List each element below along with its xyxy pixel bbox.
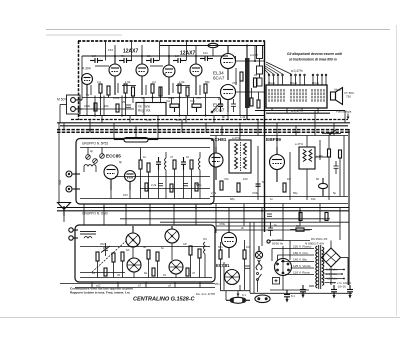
IF transformer T2 — [229, 140, 251, 173]
voltage selector PS1 — [275, 259, 292, 276]
wire fm box top rail — [80, 147, 210, 149]
svg-text:a 47%: a 47% — [295, 142, 303, 146]
connector left column box — [257, 46, 263, 87]
resistor R1 — [99, 84, 102, 93]
choke L.AF oval on box top — [114, 138, 158, 143]
line transformer box — [266, 85, 327, 108]
resistor R2 — [107, 86, 110, 95]
svg-text:6CA7: 6CA7 — [213, 76, 225, 81]
svg-text:9p: 9p — [119, 160, 123, 164]
G_TOPSECTION — [57, 41, 350, 232]
potentiometer P2 — [192, 104, 201, 112]
resistor R32 — [257, 100, 260, 108]
wire left dashed border — [78, 41, 80, 120]
resistor R27 — [198, 249, 201, 258]
wire antenna to rail — [63, 216, 65, 222]
svg-text:10k: 10k — [104, 104, 109, 108]
tube V5 — [190, 56, 202, 95]
wire fonovaligia arrow — [347, 114, 350, 120]
trimmer CT2 — [93, 159, 98, 164]
tube V3 — [136, 56, 148, 95]
svg-text:OC: OC — [203, 237, 207, 241]
tube V15 — [222, 222, 237, 258]
svg-text:1M: 1M — [287, 177, 292, 181]
resistor R31 — [250, 98, 253, 106]
wire dial cord — [92, 241, 126, 272]
capacitor C17 — [126, 105, 131, 107]
label lower row values — [84, 100, 246, 122]
terminal strip row — [268, 74, 327, 85]
wire left vertical — [58, 123, 60, 202]
svg-text:1M: 1M — [175, 54, 180, 58]
G_MIDBAND — [57, 111, 350, 286]
resistor R10 — [240, 72, 243, 81]
dipole jack lower — [66, 186, 80, 192]
ferrite antenna L4 — [80, 232, 96, 239]
resistor R36 — [145, 183, 148, 191]
tube V9 ECH81 — [209, 147, 223, 180]
resistor R7 — [178, 84, 181, 93]
svg-text:68p: 68p — [230, 197, 235, 201]
svg-text:Rapporto bobine in tesa. Fr: Rapporto bobine in tesa. Freq. interm. f… — [70, 291, 131, 295]
wire fm box mid rail — [115, 176, 210, 178]
wire band divider dashed A — [57, 129, 350, 131]
switch SW1 — [322, 130, 341, 135]
resistor R13 — [139, 160, 142, 169]
resistor plate oval — [208, 43, 218, 47]
resistor R33 — [339, 150, 342, 158]
scan page right edge — [396, 25, 398, 316]
svg-text:CENTRALINO G.1528-C: CENTRALINO G.1528-C — [133, 296, 196, 302]
svg-text:48: 48 — [143, 245, 147, 249]
capacitor C19 — [158, 184, 163, 186]
capacitor C18 — [245, 266, 250, 268]
wire if rail bottom — [210, 196, 348, 198]
tone control box — [136, 103, 166, 116]
wire band divider dashed B — [57, 131, 350, 133]
svg-text:10: 10 — [186, 155, 190, 159]
svg-text:Ton.: Ton. — [190, 99, 196, 103]
svg-text:Gli altoparlanti devono essere: Gli altoparlanti devono essere uniti — [287, 52, 342, 56]
resistor R43 — [325, 213, 328, 221]
tube V7 EL34 — [221, 85, 236, 113]
capacitor C9 — [256, 184, 261, 186]
fuse F1 — [226, 297, 250, 303]
svg-text:ECC81: ECC81 — [216, 263, 230, 268]
svg-text:160 V. Oro: 160 V. Oro — [293, 251, 308, 255]
svg-text:16+16: 16+16 — [338, 285, 346, 289]
svg-text:GRUPPO N. OM3: GRUPPO N. OM3 — [82, 212, 108, 216]
wire fm box bottom rail — [80, 198, 210, 200]
G_POWER — [216, 222, 353, 303]
svg-text:125 V. Verde: 125 V. Verde — [293, 264, 311, 268]
resistor R4 — [132, 87, 135, 96]
resistor R34 — [94, 103, 97, 111]
capacitor C20 — [183, 184, 188, 186]
svg-text:a 47%: a 47% — [232, 136, 240, 140]
trimmer CT1 — [86, 155, 91, 160]
label terminal names — [268, 81, 319, 85]
resistor R5 — [151, 84, 154, 93]
resistor R37 — [170, 184, 173, 192]
transformer T1 coils — [269, 89, 324, 102]
svg-text:0,1: 0,1 — [242, 293, 246, 297]
label am values — [92, 237, 207, 277]
svg-text:a 0,47: a 0,47 — [250, 53, 258, 57]
svg-text:a 0,47%: a 0,47% — [291, 69, 303, 73]
speaker LS1 — [331, 88, 343, 105]
tube V2 — [109, 56, 121, 95]
bridge rectifier BR1 — [322, 248, 341, 267]
wire fm internal drops — [88, 148, 200, 199]
pilot lamp LP1 — [255, 246, 262, 259]
tube V11 socket — [126, 226, 140, 247]
capacitor C2 — [119, 58, 132, 63]
wire output coupling top — [236, 46, 265, 93]
wire fm lower link — [140, 188, 210, 190]
capacitor C10 electrolytic — [284, 290, 290, 303]
wire am lower link — [80, 272, 125, 274]
wire secondary taps — [325, 270, 345, 283]
svg-text:470k: 470k — [219, 222, 226, 226]
resistor R23 — [121, 252, 124, 261]
wire power top rails — [216, 222, 340, 293]
svg-text:25: 25 — [122, 100, 126, 104]
svg-text:100k: 100k — [113, 96, 120, 100]
wire inter-band rails — [120, 219, 349, 222]
resistor R35 — [116, 104, 119, 112]
svg-text:AP: AP — [183, 242, 187, 246]
capacitor C1 — [90, 58, 103, 63]
capacitor C3 — [146, 58, 159, 63]
wire heater rail — [78, 115, 264, 117]
svg-text:RS 250/1,4/5: RS 250/1,4/5 — [311, 237, 328, 241]
diode D1 — [319, 178, 328, 196]
tube V13 socket — [127, 258, 141, 272]
resistor R14 — [147, 163, 150, 172]
svg-text:33: 33 — [117, 273, 121, 277]
svg-text:15: 15 — [163, 273, 167, 277]
svg-text:470: 470 — [196, 96, 201, 100]
input jack housing — [67, 95, 81, 114]
dipole jack upper — [66, 171, 80, 177]
svg-text:154: 154 — [108, 48, 113, 52]
capacitor C16 — [334, 161, 339, 174]
capacitor C4 — [173, 58, 186, 63]
capacitor C22 plus — [273, 278, 280, 285]
wire rail under midband 1 — [57, 207, 349, 209]
resistor R16 — [190, 160, 193, 169]
tube V6 EL34 — [221, 46, 236, 81]
svg-text:ECC85: ECC85 — [106, 154, 121, 159]
svg-text:56p: 56p — [293, 191, 298, 195]
label voltage taps — [293, 245, 312, 275]
svg-text:2n: 2n — [241, 226, 245, 230]
resistor R38 — [195, 183, 198, 191]
svg-text:8n: 8n — [222, 115, 226, 119]
resistor R20 — [283, 183, 286, 192]
input jack phono 2 — [71, 107, 82, 112]
coil L2 — [165, 152, 167, 176]
svg-text:2,2: 2,2 — [97, 80, 101, 84]
terminal ant2 — [69, 236, 78, 240]
tube V10 EBF89 — [270, 147, 285, 182]
wire crossband verticals — [64, 111, 345, 140]
switch SW2 mains — [257, 273, 262, 293]
coil L3 — [199, 152, 201, 176]
svg-text:OM: OM — [100, 242, 105, 246]
wire bottom dashed border — [71, 119, 348, 121]
wire below ambox drops — [60, 282, 215, 288]
svg-text:50: 50 — [316, 177, 320, 181]
resistor R29 — [243, 250, 246, 259]
AM tuner box — [75, 225, 215, 282]
wire right border — [348, 129, 350, 285]
svg-text:6A: 6A — [126, 248, 130, 252]
G_DETECTOR column — [215, 222, 251, 297]
resistor R40 — [152, 268, 155, 276]
tube V12 socket — [165, 226, 179, 243]
wire cathode rail — [82, 97, 220, 99]
svg-text:25n: 25n — [215, 282, 220, 286]
junction dots rails — [89, 125, 301, 212]
svg-text:110 V. Rosa: 110 V. Rosa — [293, 271, 310, 275]
resistor R39 — [104, 268, 107, 276]
wire if verticals — [216, 136, 329, 201]
svg-text:56k: 56k — [205, 80, 210, 84]
wire plate rail — [160, 45, 264, 47]
label under ambox — [96, 284, 171, 288]
coil L5 — [204, 242, 206, 254]
resistor R41 — [186, 268, 189, 276]
resistor R9 — [204, 84, 207, 93]
resistor R30 — [290, 228, 312, 231]
wire jack stub — [60, 105, 67, 123]
FM tuner box GRUPPO — [76, 139, 214, 205]
scan artifact bottom rule — [0, 317, 400, 319]
wire bus1 — [57, 122, 350, 124]
wire am internals — [80, 243, 212, 278]
svg-text:2,2k: 2,2k — [211, 191, 217, 195]
terminal ant1 — [69, 228, 78, 232]
svg-text:1n: 1n — [270, 197, 274, 201]
svg-text:470: 470 — [232, 81, 237, 85]
svg-text:8a: 8a — [144, 271, 148, 275]
svg-text:50n: 50n — [218, 245, 223, 249]
capacitor C8 — [181, 157, 186, 170]
resistor R19 — [237, 183, 240, 192]
svg-text:100: 100 — [243, 177, 248, 181]
scan artifact top rule — [46, 29, 390, 31]
tube V8 ECC85 — [104, 165, 118, 190]
wire right mesh — [315, 136, 344, 197]
label if values — [211, 142, 337, 201]
resistor R17 — [328, 149, 331, 157]
label value marks top row — [86, 48, 258, 103]
variable capacitor CV1 — [101, 243, 110, 256]
capacitor C6 — [218, 100, 223, 112]
wire misc top links — [91, 68, 259, 100]
potentiometer P1 — [170, 104, 179, 112]
label VT800 — [344, 91, 354, 99]
svg-text:1,5k: 1,5k — [125, 80, 131, 84]
resistor R25 — [156, 252, 159, 261]
switch lever top — [211, 98, 219, 113]
svg-text:A 304: A 304 — [82, 67, 91, 71]
resistor R24 — [147, 250, 150, 259]
svg-text:5n: 5n — [262, 180, 266, 184]
resistor R22 — [112, 253, 115, 262]
resistor R12 — [254, 78, 257, 87]
svg-text:8,1: 8,1 — [291, 294, 295, 298]
svg-text:al trasformatore di linea 800: al trasformatore di linea 800 m — [289, 58, 337, 62]
svg-text:5p: 5p — [333, 191, 337, 195]
trimmer CT3 — [100, 154, 105, 159]
tube V16 socket — [225, 270, 240, 285]
svg-text:N 800/2-T.4/A: N 800/2-T.4/A — [305, 242, 325, 246]
svg-text:2,2: 2,2 — [152, 80, 156, 84]
svg-text:47: 47 — [170, 155, 174, 159]
svg-text:Dis. num. 41785: Dis. num. 41785 — [196, 292, 215, 296]
svg-text:10n: 10n — [203, 51, 208, 55]
mains cord twisted — [256, 260, 262, 270]
wire aux rail — [82, 108, 134, 110]
mains plug P1 — [255, 295, 270, 303]
svg-text:22n: 22n — [147, 54, 152, 58]
G_TOPRIGHT speaker network — [255, 46, 354, 120]
resistor R18 — [220, 181, 223, 190]
wire under box 2 — [266, 112, 330, 114]
wire plate links — [95, 66, 190, 86]
label fm values — [90, 149, 202, 197]
coil L1 — [84, 165, 96, 173]
svg-text:Fonovaligia: Fonovaligia — [336, 110, 352, 114]
svg-text:47k: 47k — [120, 54, 125, 58]
wire grid row — [82, 55, 228, 57]
input jack phono 1 — [71, 98, 82, 103]
wire det verticals — [221, 222, 251, 293]
wire grid drops — [95, 81, 240, 115]
wire bus2 — [60, 125, 348, 127]
svg-text:47: 47 — [192, 271, 196, 275]
svg-text:L.N. 4/9441: L.N. 4/9441 — [337, 281, 352, 285]
IF transformer T3 — [299, 147, 315, 169]
svg-text:a 0,47%: a 0,47% — [291, 109, 303, 113]
transformer T4 primary — [316, 246, 318, 288]
svg-text:140 V. Blu: 140 V. Blu — [293, 258, 307, 262]
resistor R6 — [159, 87, 162, 96]
G_BOTTOM text — [70, 287, 215, 303]
resistor R28 — [219, 250, 222, 259]
wire under box 1 — [255, 110, 345, 112]
svg-text:10k: 10k — [311, 197, 316, 201]
svg-text:EBF89: EBF89 — [266, 137, 281, 143]
wire primary taps — [272, 249, 314, 287]
resistor R15 — [173, 160, 176, 169]
svg-text:Altop.: Altop. — [334, 88, 342, 92]
tube V14 socket — [169, 260, 183, 274]
svg-text:b7: b7 — [138, 284, 141, 288]
capacitor C14 — [268, 222, 273, 236]
wire extra mesh links — [82, 49, 236, 123]
svg-text:ECH81: ECH81 — [211, 137, 227, 143]
svg-text:100: 100 — [123, 193, 128, 197]
svg-text:750: 750 — [346, 95, 351, 99]
wire box drops — [272, 108, 318, 113]
svg-text:50: 50 — [86, 93, 90, 97]
wire top drops to border — [106, 41, 197, 61]
svg-text:5,6p: 5,6p — [196, 183, 202, 187]
capacitor C11 electrolytic — [300, 285, 306, 298]
svg-text:6,3V: 6,3V — [146, 118, 152, 122]
svg-text:1,5k: 1,5k — [179, 80, 185, 84]
svg-text:GRUPPO N. 5P52: GRUPPO N. 5P52 — [82, 142, 108, 146]
svg-text:Vol.: Vol. — [166, 99, 171, 103]
capacitor C7 — [156, 157, 161, 170]
tube V1 — [82, 74, 93, 96]
junction dots top — [94, 45, 256, 117]
wire if rail bottom2 — [210, 203, 348, 205]
svg-text:Reg. Vol.: Reg. Vol. — [138, 109, 151, 113]
svg-text:22: 22 — [163, 72, 167, 76]
transformer T4 secondary — [322, 247, 324, 286]
capacitor C5 — [200, 56, 213, 61]
wire power rails — [250, 241, 352, 294]
resistor R42 — [299, 213, 302, 221]
wire rail under midband 2 — [57, 210, 349, 212]
wire top dashed border — [78, 40, 265, 42]
wire fan to terminals — [265, 62, 291, 74]
G_AMBOX — [60, 219, 349, 288]
antenna ANT1 — [58, 203, 71, 217]
label power top values — [219, 222, 301, 230]
svg-text:12AX7: 12AX7 — [123, 49, 139, 55]
resistor R3 — [124, 84, 127, 93]
svg-text:50/60 Hz: 50/60 Hz — [272, 241, 284, 245]
label det values — [215, 245, 251, 297]
capacitor C13 electrolytic — [347, 285, 353, 299]
svg-text:1,2k: 1,2k — [240, 115, 246, 119]
resistor R11 ladder tall — [245, 45, 250, 120]
transformer T4 core — [319, 245, 321, 289]
svg-text:c9: c9 — [168, 284, 171, 288]
capacitor C12 electrolytic — [331, 285, 337, 299]
capacitor C21 — [267, 214, 272, 216]
label C500 — [267, 238, 284, 245]
svg-text:M 507: M 507 — [57, 98, 67, 102]
svg-text:2,2k: 2,2k — [151, 183, 157, 187]
wire divider vertical — [264, 41, 266, 232]
tube V4 — [163, 56, 175, 95]
wire if rail top — [210, 135, 348, 137]
svg-text:1M: 1M — [92, 54, 97, 58]
svg-text:47k: 47k — [224, 177, 229, 181]
svg-text:200: 200 — [176, 118, 181, 122]
tube V8b second triode — [125, 171, 136, 191]
resistor R26 — [189, 246, 192, 255]
svg-text:2p: 2p — [90, 149, 94, 153]
resistor R21 — [96, 252, 99, 261]
label secondary taps — [326, 268, 338, 286]
svg-text:1M: 1M — [246, 245, 251, 249]
wire fuse drops — [220, 291, 250, 300]
svg-text:5W: 5W — [296, 224, 301, 228]
wire interband verticals — [84, 204, 340, 247]
resistor R8 — [186, 87, 189, 96]
svg-text:470k: 470k — [252, 191, 259, 195]
capacitor C15 — [231, 99, 236, 112]
